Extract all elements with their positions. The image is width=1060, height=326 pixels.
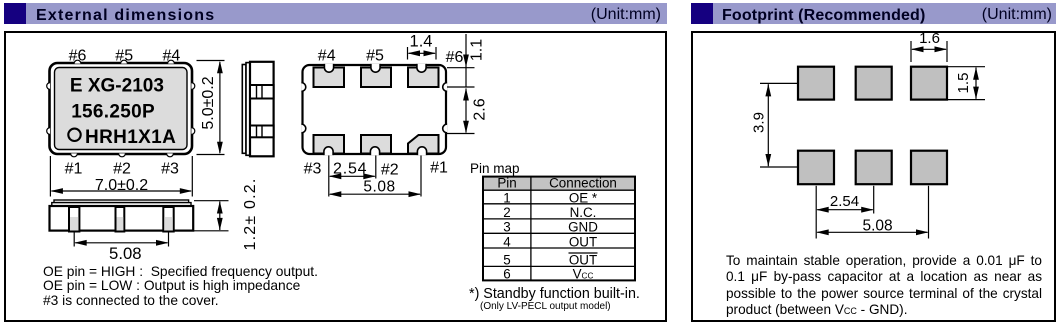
footprint dimension 2.54 — [816, 186, 874, 239]
footprint bypass capacitor paragraph — [726, 253, 1042, 319]
svg-text:1.5: 1.5 — [955, 73, 972, 94]
footprint dimension 1.6 — [911, 41, 947, 62]
dimension 1.1 — [447, 34, 475, 87]
svg-text:156.250P: 156.250P — [71, 101, 155, 122]
svg-text:#5: #5 — [115, 48, 133, 65]
right panel frame — [691, 31, 1056, 322]
svg-text:6: 6 — [503, 267, 510, 282]
top view package body — [50, 63, 193, 154]
svg-text:1: 1 — [503, 190, 510, 205]
footprint dimension 1.5 — [948, 67, 985, 100]
side view castellation band lower — [250, 126, 274, 138]
top view pad labels row top — [69, 48, 181, 65]
svg-text:#4: #4 — [318, 48, 336, 65]
dimension 2.54 bottom view — [329, 156, 421, 197]
right header title — [722, 7, 925, 25]
bottom view pad #2 — [361, 135, 391, 154]
left header navy square — [4, 3, 26, 24]
bottom view pad #3 — [314, 135, 345, 154]
svg-text:1.1: 1.1 — [469, 39, 486, 61]
svg-text:E XG-2103: E XG-2103 — [70, 76, 164, 97]
svg-text:2.54: 2.54 — [830, 193, 859, 210]
bottom view pad #6 — [408, 68, 439, 88]
svg-text:OUT: OUT — [569, 253, 597, 268]
OE note text lines — [43, 265, 318, 309]
svg-text:7.0±0.2: 7.0±0.2 — [95, 177, 148, 194]
svg-text:3: 3 — [503, 220, 510, 235]
svg-text:#1: #1 — [65, 161, 83, 178]
left header bar — [4, 3, 667, 24]
bottom view edge notches — [301, 64, 447, 155]
svg-text:#1: #1 — [430, 160, 448, 177]
svg-text:4: 4 — [503, 234, 511, 249]
footprint dimension 3.9 — [760, 83, 797, 167]
svg-text:OUT: OUT — [569, 234, 597, 249]
standby note — [469, 286, 640, 302]
dimension 2.6 — [447, 88, 475, 134]
dimension 1.4 — [408, 47, 437, 60]
svg-text:GND: GND — [568, 220, 598, 235]
top view pad labels row bottom — [65, 161, 179, 178]
svg-text:5.0±0.2: 5.0±0.2 — [200, 76, 217, 129]
svg-text:5.08: 5.08 — [109, 244, 141, 263]
front view pad 1 — [69, 207, 79, 232]
svg-text:1.6: 1.6 — [919, 30, 940, 47]
svg-text:5.08: 5.08 — [363, 179, 395, 196]
svg-text:5: 5 — [503, 253, 510, 268]
bottom view pad #4 — [314, 68, 345, 88]
svg-text:Connection: Connection — [549, 176, 617, 191]
footprint pad top-left — [798, 67, 834, 100]
svg-text:Pin: Pin — [497, 176, 516, 191]
front view body — [50, 206, 194, 231]
pin map caption — [470, 161, 520, 176]
footprint dimension 5.08 — [816, 186, 928, 239]
dimension 5.0±0.2 — [197, 61, 225, 155]
dimension 7.0±0.2 — [50, 156, 192, 197]
right header unit label — [852, 6, 1052, 24]
footprint pad top-middle — [856, 67, 892, 100]
right header navy square — [691, 3, 713, 24]
top view marking circle — [68, 129, 80, 141]
top view castellation marks — [47, 60, 195, 157]
svg-text:1.2± 0.2.: 1.2± 0.2. — [242, 178, 259, 251]
front view lid layers — [52, 200, 191, 206]
svg-text:#3: #3 — [161, 161, 179, 178]
svg-text:2.54: 2.54 — [333, 161, 367, 178]
dimension 5.08 bottom view — [329, 191, 421, 197]
bottom view pad labels — [304, 48, 464, 179]
side view castellation band upper — [250, 85, 274, 99]
side view lid layers — [242, 63, 250, 156]
footprint pad top-right — [911, 67, 947, 100]
dimension 1.2±0.2 — [194, 201, 229, 231]
pin map pin numbers — [503, 190, 511, 281]
svg-text:#5: #5 — [366, 48, 384, 65]
footprint pad bottom-right — [911, 151, 947, 185]
side view body — [250, 62, 274, 157]
top view marking text — [70, 76, 176, 148]
dimension 5.08 front view — [74, 233, 168, 247]
svg-text:2.6: 2.6 — [472, 98, 489, 120]
svg-text:1.4: 1.4 — [410, 33, 433, 51]
front view pad 2 — [116, 207, 125, 232]
svg-text:#2: #2 — [113, 161, 131, 178]
svg-text:N.C.: N.C. — [570, 205, 597, 220]
pin map connection values — [568, 190, 598, 281]
front view pad 3 — [163, 207, 173, 232]
svg-text:#2: #2 — [381, 162, 399, 179]
svg-text:#3: #3 — [304, 161, 322, 178]
svg-text:3.9: 3.9 — [751, 112, 768, 133]
bottom view pad #1 chamfered — [408, 135, 439, 154]
svg-text:5.08: 5.08 — [863, 217, 893, 234]
left panel frame — [4, 31, 667, 322]
svg-text:#6: #6 — [69, 48, 87, 65]
footprint pad bottom-middle — [856, 151, 892, 185]
pin map header text — [497, 176, 617, 191]
svg-text:#4: #4 — [163, 48, 181, 65]
pin map OUT overline — [569, 252, 598, 254]
standby note small — [480, 301, 611, 312]
left header title — [36, 7, 215, 25]
svg-text:2: 2 — [503, 205, 510, 220]
footprint pad bottom-left — [798, 151, 834, 185]
bottom view outline — [303, 65, 447, 154]
svg-text:HRH1X1A: HRH1X1A — [85, 127, 176, 148]
left header unit label — [461, 6, 661, 24]
bottom view pad #5 — [361, 68, 391, 88]
pin map table grid — [483, 177, 635, 281]
svg-text:VCC: VCC — [573, 267, 594, 282]
svg-text:#6: #6 — [446, 49, 464, 66]
right header bar — [691, 3, 1056, 24]
svg-text:OE *: OE * — [569, 190, 597, 205]
